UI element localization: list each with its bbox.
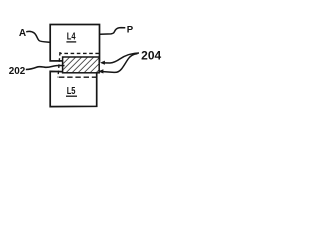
svg-text:L4: L4 xyxy=(67,31,76,42)
svg-text:204: 204 xyxy=(141,50,162,63)
leader from A to box L4 xyxy=(26,31,50,42)
svg-text:A: A xyxy=(19,28,26,39)
underline of L4 xyxy=(66,41,76,43)
leader wire from 202 to hatched element xyxy=(26,66,65,70)
upper arrowhead xyxy=(100,61,105,65)
leader from P to box L4 xyxy=(100,28,126,35)
upper leader from 204 xyxy=(105,53,140,63)
dashed outline of region 202: top, left, bottom xyxy=(58,52,99,77)
layer box L5 xyxy=(50,71,96,106)
svg-text:L5: L5 xyxy=(67,86,76,97)
layer box L4 xyxy=(50,25,99,61)
lower arrowhead xyxy=(98,69,103,73)
lower leader from 204 xyxy=(103,54,138,73)
svg-text:202: 202 xyxy=(9,66,26,77)
dashed bottom edge of region 202 xyxy=(59,76,97,78)
underline of L5 xyxy=(66,95,77,97)
hatched element between L4 and L5 xyxy=(63,57,100,73)
svg-text:P: P xyxy=(127,24,134,35)
